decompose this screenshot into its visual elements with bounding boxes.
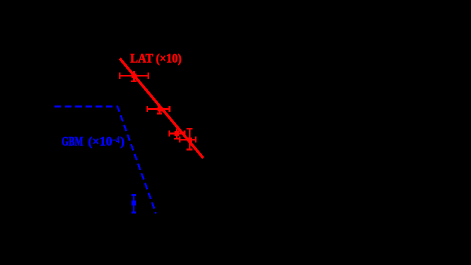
svg-text:−4: −4 (112, 135, 120, 145)
svg-text:LAT (×10): LAT (×10) (130, 51, 181, 66)
svg-text:GBM: GBM (62, 133, 84, 148)
svg-text:(×10: (×10 (88, 133, 112, 148)
svg-text:): ) (120, 133, 124, 148)
